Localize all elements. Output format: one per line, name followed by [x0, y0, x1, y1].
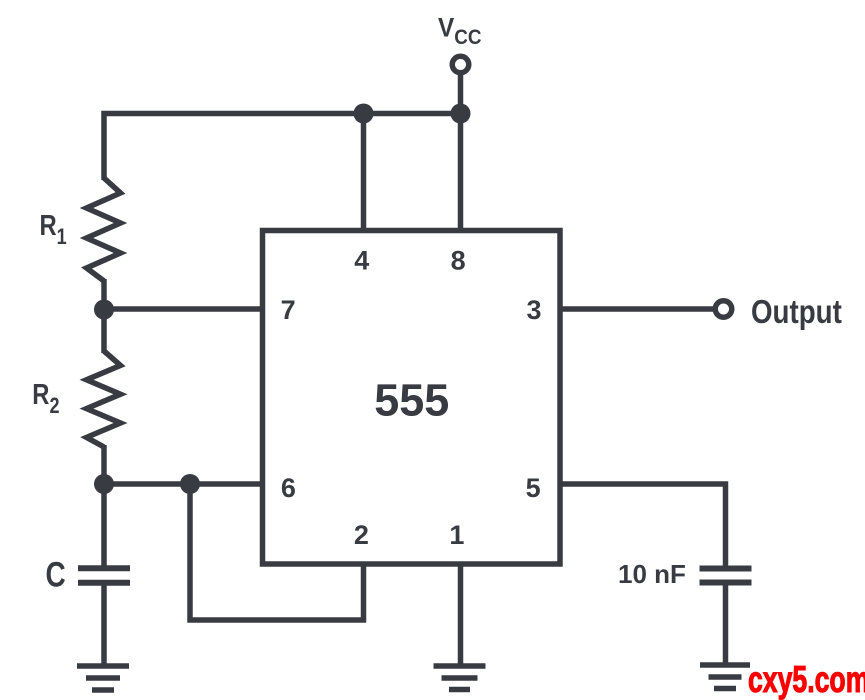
ground (pin 1) [434, 666, 486, 690]
wire top rail [104, 114, 461, 181]
resistor R2 [87, 351, 121, 447]
wire C to ground [101, 585, 107, 666]
svg-text:555: 555 [374, 375, 449, 426]
svg-text:5: 5 [526, 473, 541, 503]
wire 10nF to ground [723, 585, 729, 665]
node A dot R1-R2 junction [94, 300, 114, 320]
svg-text:7: 7 [281, 295, 296, 325]
wire pin 1 stub [458, 564, 464, 666]
ground (10nF) [700, 665, 750, 689]
svg-text:6: 6 [281, 473, 296, 503]
wire pin 7 [104, 306, 263, 312]
resistor R1 [87, 178, 121, 281]
svg-text:2: 2 [354, 520, 369, 550]
wire pin 4 stub [361, 114, 367, 234]
node B dot R2-C junction [94, 474, 114, 494]
wire R1 to node A [101, 279, 107, 312]
wire pin 6 [104, 481, 263, 487]
wire pin 3 output [560, 306, 713, 312]
IC 555 body [263, 231, 561, 565]
wire pin 2 loop [190, 484, 364, 620]
svg-text:3: 3 [526, 295, 541, 325]
ground (C) [77, 666, 129, 690]
wire Vcc stub [458, 73, 464, 114]
svg-text:8: 8 [451, 246, 466, 276]
capacitor C plates [78, 568, 130, 583]
terminal Output open circle [715, 301, 732, 318]
svg-text:C: C [46, 554, 66, 594]
svg-text:Output: Output [751, 294, 842, 331]
node junction dot at pin4 rail [354, 104, 374, 124]
wire pin 5 [560, 484, 726, 566]
capacitor 10nF plates [700, 569, 752, 583]
svg-text:4: 4 [354, 246, 369, 276]
wire R2 to node B [101, 445, 107, 487]
svg-text:cxy5.com: cxy5.com [748, 659, 865, 700]
wire node B to capacitor C [101, 484, 107, 566]
node junction dot at Vcc [451, 104, 471, 124]
wire pin 8 stub [458, 114, 464, 234]
svg-text:10 nF: 10 nF [618, 559, 686, 589]
node dot pin2 branch [180, 474, 200, 494]
terminal Vcc open circle [452, 56, 469, 73]
svg-text:1: 1 [449, 520, 464, 550]
wire node A to R2 [101, 306, 107, 353]
